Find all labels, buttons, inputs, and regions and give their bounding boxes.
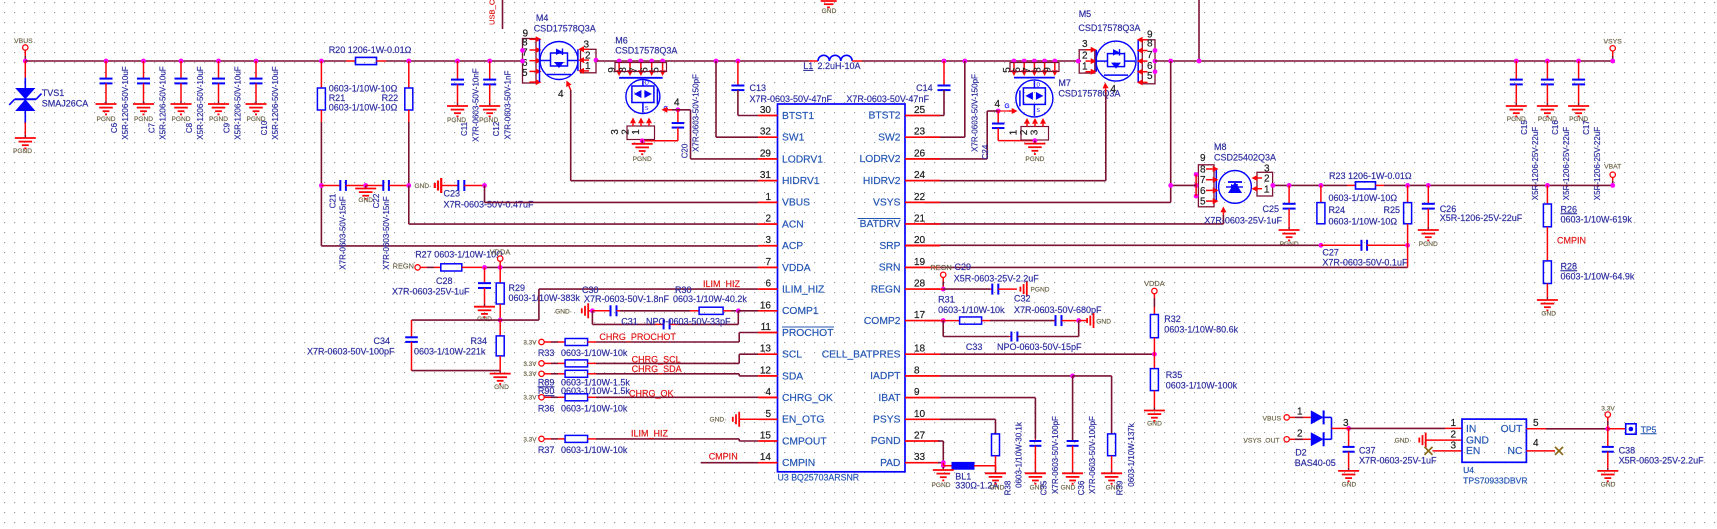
svg-text:PGND: PGND	[1031, 287, 1050, 294]
svg-text:GND·: GND·	[1395, 438, 1412, 445]
svg-text:R24: R24	[1329, 205, 1346, 215]
svg-text:2: 2	[1082, 51, 1088, 62]
svg-text:PGND: PGND	[871, 436, 901, 447]
svg-text:C13: C13	[750, 83, 767, 93]
svg-text:21: 21	[914, 214, 926, 225]
svg-text:PGND: PGND	[171, 116, 190, 123]
svg-text:0603-1/10W-1.5k: 0603-1/10W-1.5k	[561, 386, 630, 396]
svg-text:0603-1/10W-10Ω: 0603-1/10W-10Ω	[329, 83, 398, 93]
svg-text:SMAJ26CA: SMAJ26CA	[42, 99, 89, 109]
svg-text:22: 22	[914, 192, 926, 203]
svg-text:R34: R34	[470, 336, 487, 346]
svg-text:SDA: SDA	[782, 371, 803, 382]
svg-text:2: 2	[1264, 174, 1270, 185]
svg-text:C35: C35	[1040, 480, 1049, 495]
svg-text:CSD17578Q3A: CSD17578Q3A	[1078, 23, 1140, 33]
svg-text:VBUS: VBUS	[14, 38, 33, 45]
svg-text:11: 11	[761, 322, 772, 333]
svg-text:CELL_BATPRES: CELL_BATPRES	[822, 349, 901, 360]
svg-text:R37: R37	[538, 445, 555, 455]
svg-text:2: 2	[765, 214, 771, 225]
svg-text:M7: M7	[1058, 78, 1071, 88]
svg-text:ACN: ACN	[782, 219, 804, 230]
svg-text:C24: C24	[981, 144, 990, 159]
svg-text:C7: C7	[148, 122, 157, 133]
svg-text:0603-1/10W-80.6k: 0603-1/10W-80.6k	[1164, 324, 1238, 334]
svg-text:ILIM_HIZ: ILIM_HIZ	[703, 279, 741, 289]
svg-text:SW1: SW1	[782, 133, 805, 144]
svg-text:X7R-0603-25V-1uF: X7R-0603-25V-1uF	[1359, 456, 1437, 466]
svg-text:X7R-0603-50V-150pF: X7R-0603-50V-150pF	[971, 74, 980, 152]
svg-text:ILIM_HIZ: ILIM_HIZ	[631, 429, 669, 439]
svg-text:6: 6	[1200, 186, 1206, 197]
svg-text:0603-1/10W-64.9k: 0603-1/10W-64.9k	[1561, 271, 1635, 281]
svg-text:X5R-1206-50V-10uF: X5R-1206-50V-10uF	[196, 66, 205, 139]
svg-text:S: S	[1036, 108, 1040, 114]
svg-text:EN: EN	[1466, 446, 1480, 457]
svg-text:VSYS OUT: VSYS OUT	[1243, 438, 1279, 445]
svg-text:SW2: SW2	[878, 132, 901, 143]
svg-text:ACP: ACP	[782, 241, 803, 252]
svg-text:BTST1: BTST1	[782, 111, 814, 122]
svg-text:0603-1/10W-221k: 0603-1/10W-221k	[414, 347, 486, 357]
svg-text:M5: M5	[1079, 9, 1092, 19]
svg-text:7: 7	[765, 257, 771, 268]
svg-text:X7R-0603-50V-10nF: X7R-0603-50V-10nF	[472, 68, 481, 141]
svg-text:1: 1	[1009, 129, 1020, 135]
svg-text:PGND: PGND	[1025, 156, 1044, 163]
svg-text:R35: R35	[1166, 370, 1183, 380]
svg-text:CSD17578Q3A: CSD17578Q3A	[615, 46, 677, 56]
svg-text:PAD: PAD	[880, 458, 900, 469]
svg-text:R31: R31	[938, 295, 955, 305]
svg-text:C20: C20	[681, 143, 690, 158]
svg-text:6: 6	[765, 279, 771, 290]
svg-text:PGND: PGND	[633, 156, 652, 163]
svg-text:LODRV1: LODRV1	[782, 154, 823, 165]
svg-text:R28: R28	[1561, 261, 1578, 271]
svg-text:X5R-1206-50V-10uF: X5R-1206-50V-10uF	[121, 66, 130, 139]
svg-text:X5R-1206-50V-10uF: X5R-1206-50V-10uF	[234, 66, 243, 139]
svg-text:M4: M4	[536, 13, 549, 23]
svg-text:4: 4	[1111, 84, 1117, 95]
svg-text:CMPIN: CMPIN	[782, 458, 815, 469]
svg-text:ILIM_HIZ: ILIM_HIZ	[782, 285, 824, 296]
svg-text:OUT: OUT	[1501, 424, 1523, 435]
svg-text:CSD25402Q3A: CSD25402Q3A	[1214, 153, 1276, 163]
svg-text:X7R-0603-50V-0.1uF: X7R-0603-50V-0.1uF	[1322, 258, 1408, 268]
svg-text:26: 26	[914, 148, 926, 159]
svg-text:X7R-0603-25V-1uF: X7R-0603-25V-1uF	[392, 287, 470, 297]
svg-text:CMPIN: CMPIN	[709, 452, 738, 462]
svg-text:CHRG_OK: CHRG_OK	[629, 389, 674, 399]
svg-text:CSD17578Q3A: CSD17578Q3A	[534, 24, 596, 34]
svg-text:X7R-0603-50V-47nF: X7R-0603-50V-47nF	[750, 94, 833, 104]
svg-text:C11: C11	[460, 121, 469, 136]
svg-text:VDDA: VDDA	[490, 248, 511, 257]
svg-text:1: 1	[1264, 185, 1270, 196]
svg-text:4: 4	[558, 89, 564, 100]
svg-text:CMPIN: CMPIN	[1557, 235, 1586, 245]
svg-text:3.3V: 3.3V	[523, 395, 537, 402]
svg-text:8: 8	[1147, 39, 1153, 50]
svg-text:9: 9	[1200, 153, 1206, 164]
svg-text:16: 16	[760, 300, 772, 311]
svg-text:SRP: SRP	[879, 241, 900, 252]
svg-text:0603-1/10W-10k: 0603-1/10W-10k	[561, 404, 628, 414]
svg-text:C21: C21	[329, 193, 338, 208]
svg-text:3.3V: 3.3V	[523, 436, 537, 443]
svg-text:13: 13	[760, 344, 772, 355]
svg-text:C23: C23	[444, 189, 461, 199]
svg-text:G: G	[1005, 103, 1010, 110]
svg-text:PSYS: PSYS	[873, 415, 901, 426]
svg-text:10: 10	[914, 409, 926, 420]
svg-text:X5R-1206-50V-10uF: X5R-1206-50V-10uF	[159, 66, 168, 139]
svg-text:CHRG_OK: CHRG_OK	[782, 393, 833, 404]
svg-text:C15: C15	[1520, 120, 1529, 135]
svg-text:R32: R32	[1164, 314, 1181, 324]
svg-text:C27: C27	[1322, 248, 1339, 258]
svg-text:COMP2: COMP2	[864, 316, 901, 327]
svg-text:D2: D2	[1295, 448, 1307, 458]
svg-text:2: 2	[621, 129, 632, 135]
svg-text:R20 1206-1W-0.01Ω: R20 1206-1W-0.01Ω	[329, 45, 412, 55]
svg-text:R38: R38	[1004, 480, 1013, 495]
svg-text:IADPT: IADPT	[870, 371, 901, 382]
svg-text:X7R-0603-25V-1uF: X7R-0603-25V-1uF	[1204, 216, 1282, 226]
svg-text:VBAT: VBAT	[1604, 164, 1621, 171]
svg-text:0603-1/10W-137k: 0603-1/10W-137k	[1127, 422, 1136, 486]
svg-text:CHRG_SDA: CHRG_SDA	[632, 364, 682, 374]
svg-text:4: 4	[765, 387, 771, 398]
svg-text:5: 5	[1533, 418, 1539, 429]
svg-text:15: 15	[760, 431, 772, 442]
svg-text:X5R-1206-25V-22uF: X5R-1206-25V-22uF	[1531, 127, 1540, 200]
svg-text:X5R-1206-25V-22uF: X5R-1206-25V-22uF	[1593, 127, 1602, 200]
svg-text:GND: GND	[1096, 318, 1111, 325]
svg-text:3: 3	[1030, 129, 1041, 135]
svg-text:C33: C33	[966, 342, 983, 352]
svg-text:PGND: PGND	[96, 116, 115, 123]
svg-text:33: 33	[914, 452, 926, 463]
svg-text:0603-1/10W-100k: 0603-1/10W-100k	[1166, 380, 1238, 390]
svg-text:19: 19	[914, 257, 926, 268]
svg-text:2: 2	[1297, 429, 1303, 440]
svg-text:8: 8	[1200, 164, 1206, 175]
svg-text:NPO-0603-50V-15pF: NPO-0603-50V-15pF	[997, 342, 1082, 352]
svg-text:X5R-1206-50V-10uF: X5R-1206-50V-10uF	[271, 66, 280, 139]
svg-text:18: 18	[914, 344, 926, 355]
svg-text:4: 4	[994, 99, 1000, 110]
svg-text:X7R-0603-50V-1.8nF: X7R-0603-50V-1.8nF	[584, 294, 670, 304]
svg-text:5: 5	[1147, 71, 1153, 82]
svg-text:31: 31	[760, 170, 772, 181]
svg-text:20: 20	[914, 235, 926, 246]
svg-text:1: 1	[1450, 418, 1456, 429]
svg-text:17: 17	[914, 310, 926, 321]
svg-text:8: 8	[914, 365, 920, 376]
svg-text:7: 7	[1147, 50, 1153, 61]
svg-text:GND: GND	[494, 384, 509, 391]
svg-text:GND: GND	[1466, 435, 1489, 446]
svg-text:2: 2	[1019, 129, 1030, 135]
svg-text:VBUS: VBUS	[1262, 416, 1281, 423]
svg-text:SRN: SRN	[879, 263, 901, 274]
svg-text:GND: GND	[990, 485, 1005, 492]
svg-text:C34: C34	[373, 336, 390, 346]
svg-text:14: 14	[760, 452, 772, 463]
svg-text:CMPOUT: CMPOUT	[782, 436, 827, 447]
svg-text:REGN: REGN	[930, 263, 951, 272]
svg-text:X5R-1206-25V-22uF: X5R-1206-25V-22uF	[1440, 213, 1523, 223]
svg-text:12: 12	[760, 365, 772, 376]
svg-text:0603-1/10W-10Ω: 0603-1/10W-10Ω	[1329, 216, 1398, 226]
svg-text:3: 3	[765, 235, 771, 246]
svg-text:0603-1/10W-10Ω: 0603-1/10W-10Ω	[329, 103, 398, 113]
svg-text:PGND: PGND	[209, 116, 228, 123]
svg-text:S: S	[645, 106, 649, 112]
svg-text:28: 28	[914, 279, 926, 290]
svg-text:TP5: TP5	[1641, 424, 1657, 434]
svg-text:PGND: PGND	[134, 116, 153, 123]
svg-text:PGND: PGND	[13, 148, 32, 155]
svg-text:X7R-0603-50V-1nF: X7R-0603-50V-1nF	[504, 70, 513, 139]
svg-text:5: 5	[1200, 197, 1206, 208]
svg-text:C16: C16	[1551, 120, 1560, 135]
svg-text:C32: C32	[1014, 293, 1031, 303]
svg-text:GND: GND	[1061, 485, 1076, 492]
svg-text:EN_OTG: EN_OTG	[782, 415, 824, 426]
svg-text:TPS70933DBVR: TPS70933DBVR	[1463, 476, 1528, 486]
svg-text:0603-1/10W-383k: 0603-1/10W-383k	[509, 293, 581, 303]
svg-text:3: 3	[1082, 39, 1088, 50]
svg-text:C37: C37	[1359, 446, 1376, 456]
svg-text:24: 24	[914, 170, 926, 181]
svg-text:IBAT: IBAT	[878, 393, 901, 404]
svg-text:VSYS: VSYS	[873, 198, 901, 209]
svg-text:7: 7	[1200, 175, 1206, 186]
svg-text:X7R-0603-50V-47nF: X7R-0603-50V-47nF	[846, 94, 929, 104]
svg-text:C29: C29	[955, 262, 972, 272]
svg-text:X5R-1206-25V-22uF: X5R-1206-25V-22uF	[1562, 127, 1571, 200]
svg-text:R33: R33	[538, 348, 555, 358]
svg-text:PGND: PGND	[1419, 241, 1438, 248]
svg-text:R22: R22	[382, 93, 399, 103]
svg-text:C10: C10	[260, 120, 269, 135]
svg-text:VSYS: VSYS	[1604, 39, 1623, 46]
svg-text:0603-1/10W-619k: 0603-1/10W-619k	[1561, 214, 1633, 224]
svg-text:D: D	[1036, 82, 1040, 88]
svg-text:C38: C38	[1619, 446, 1636, 456]
svg-text:4: 4	[1533, 438, 1539, 449]
svg-text:1: 1	[1297, 407, 1303, 418]
svg-text:1: 1	[631, 129, 642, 135]
svg-text:R29: R29	[509, 283, 526, 293]
svg-text:X7R-0603-50V-150pF: X7R-0603-50V-150pF	[692, 74, 701, 152]
svg-text:PROCHOT: PROCHOT	[782, 328, 834, 339]
svg-text:3: 3	[610, 129, 621, 135]
svg-text:VDDA: VDDA	[1144, 279, 1165, 288]
svg-text:BTST2: BTST2	[868, 111, 900, 122]
svg-text:C6: C6	[110, 122, 119, 133]
svg-text:GND: GND	[822, 8, 837, 15]
svg-text:VDDA: VDDA	[782, 263, 811, 274]
svg-text:0603-1/10W-10k: 0603-1/10W-10k	[561, 348, 628, 358]
svg-text:C36: C36	[1077, 480, 1086, 495]
svg-text:3: 3	[1450, 441, 1456, 452]
svg-text:X5R-0603-25V-2.2uF: X5R-0603-25V-2.2uF	[1619, 456, 1705, 466]
svg-text:4: 4	[674, 98, 680, 109]
svg-text:CHRG_PROCHOT: CHRG_PROCHOT	[599, 332, 676, 342]
svg-text:X7R-0603-50V-100pF: X7R-0603-50V-100pF	[1051, 416, 1060, 494]
svg-text:2.2uH-10A: 2.2uH-10A	[818, 61, 861, 71]
svg-text:X7R-0603-50V-15nF: X7R-0603-50V-15nF	[339, 196, 348, 269]
svg-text:PGND: PGND	[931, 482, 950, 489]
svg-text:0603-1/10W-10k: 0603-1/10W-10k	[561, 445, 628, 455]
svg-text:0603-1/10W-10k: 0603-1/10W-10k	[938, 305, 1005, 315]
svg-text:5: 5	[522, 68, 528, 79]
svg-text:BATDRV: BATDRV	[860, 219, 901, 230]
svg-text:HIDRV2: HIDRV2	[863, 176, 901, 187]
svg-text:C12: C12	[492, 121, 501, 136]
svg-text:U4: U4	[1463, 465, 1474, 475]
svg-text:VBUS: VBUS	[782, 198, 810, 209]
svg-text:IN: IN	[1466, 424, 1476, 435]
svg-text:30: 30	[760, 105, 772, 116]
svg-text:LODRV2: LODRV2	[859, 154, 900, 165]
svg-text:GND·: GND·	[710, 417, 727, 424]
svg-text:NPO-0603-50V-33pF: NPO-0603-50V-33pF	[646, 317, 731, 327]
svg-text:C22: C22	[372, 193, 381, 208]
svg-text:X7R-0603-50V-15nF: X7R-0603-50V-15nF	[382, 196, 391, 269]
svg-text:COMP1: COMP1	[782, 306, 819, 317]
svg-text:GND: GND	[1601, 482, 1616, 489]
svg-text:C8: C8	[185, 122, 194, 133]
svg-text:0603-1/10W-40.2k: 0603-1/10W-40.2k	[673, 294, 747, 304]
svg-text:HIDRV1: HIDRV1	[782, 176, 820, 187]
svg-text:C14: C14	[916, 83, 933, 93]
svg-text:GND: GND	[1147, 421, 1162, 428]
svg-text:X7R-0603-50V-680pF: X7R-0603-50V-680pF	[1014, 305, 1102, 315]
svg-text:X5R-0603-25V-2.2uF: X5R-0603-25V-2.2uF	[954, 274, 1040, 284]
svg-text:R21: R21	[329, 93, 346, 103]
svg-text:GND: GND	[1541, 311, 1556, 318]
svg-text:29: 29	[760, 148, 772, 159]
svg-text:M6: M6	[615, 35, 628, 45]
svg-text:TVS1: TVS1	[42, 88, 65, 98]
svg-text:1: 1	[765, 192, 771, 203]
svg-text:9: 9	[914, 387, 920, 398]
svg-text:X7R-0603-50V-100pF: X7R-0603-50V-100pF	[307, 347, 395, 357]
svg-text:R36: R36	[538, 404, 555, 414]
svg-text:R25: R25	[1383, 205, 1400, 215]
svg-text:5: 5	[765, 409, 771, 420]
svg-text:C17: C17	[1582, 120, 1591, 135]
svg-text:SCL: SCL	[782, 350, 802, 361]
svg-text:3.3V: 3.3V	[523, 361, 537, 368]
svg-text:USB_C: USB_C	[488, 0, 497, 25]
svg-text:3.3V: 3.3V	[523, 371, 537, 378]
svg-text:1: 1	[1082, 62, 1088, 73]
svg-text:0603-1/10W-30.1k: 0603-1/10W-30.1k	[1015, 421, 1024, 488]
svg-text:GND: GND	[1342, 482, 1357, 489]
svg-text:NC: NC	[1508, 446, 1523, 457]
svg-text:0603-1/10W-10Ω: 0603-1/10W-10Ω	[1329, 193, 1398, 203]
svg-text:D: D	[645, 81, 649, 87]
svg-text:25: 25	[914, 105, 926, 116]
svg-text:L1: L1	[803, 61, 813, 71]
svg-text:R26: R26	[1561, 204, 1578, 214]
svg-text:32: 32	[760, 127, 772, 138]
svg-text:REGN: REGN	[871, 284, 901, 295]
svg-text:23: 23	[914, 127, 926, 138]
svg-text:C25: C25	[1263, 204, 1280, 214]
svg-text:R39: R39	[1116, 480, 1125, 495]
svg-text:U3 BQ25703ARSNR: U3 BQ25703ARSNR	[778, 473, 860, 483]
svg-text:GND·: GND·	[555, 308, 572, 315]
svg-text:C28: C28	[436, 276, 453, 286]
svg-text:M8: M8	[1214, 142, 1227, 152]
svg-text:2: 2	[1450, 429, 1456, 440]
svg-text:27: 27	[914, 431, 926, 442]
svg-text:X7R-0603-50V-100pF: X7R-0603-50V-100pF	[1088, 416, 1097, 494]
svg-text:3.3V: 3.3V	[523, 339, 537, 346]
svg-text:GND·: GND·	[415, 183, 432, 190]
svg-text:C9: C9	[223, 122, 232, 133]
svg-text:BAS40-05: BAS40-05	[1295, 458, 1336, 468]
svg-text:REGN: REGN	[393, 262, 414, 271]
svg-text:C31: C31	[621, 317, 638, 327]
svg-text:X7R-0603-50V-0.47uF: X7R-0603-50V-0.47uF	[444, 200, 535, 210]
svg-text:R23 1206-1W-0.01Ω: R23 1206-1W-0.01Ω	[1329, 171, 1412, 181]
